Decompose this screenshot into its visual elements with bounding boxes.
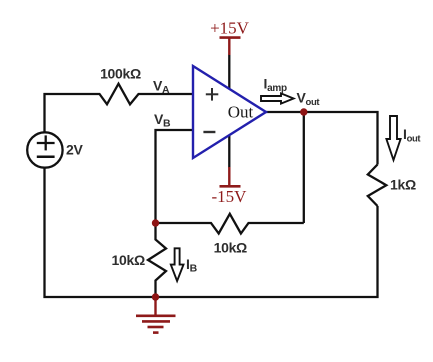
svg-text:Out: Out [228, 103, 254, 122]
svg-text:100kΩ: 100kΩ [100, 66, 141, 82]
svg-text:10kΩ: 10kΩ [214, 240, 247, 256]
svg-text:2V: 2V [66, 142, 83, 158]
svg-text:-15V: -15V [212, 187, 248, 206]
svg-text:10kΩ: 10kΩ [112, 252, 145, 268]
svg-text:+15V: +15V [210, 19, 250, 38]
svg-text:1kΩ: 1kΩ [390, 177, 416, 193]
